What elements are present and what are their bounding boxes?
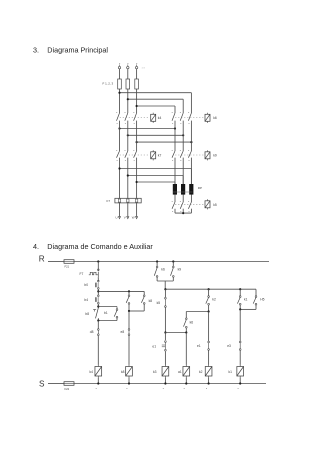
overload relay F7 element 1 [118,199,120,202]
svg-text:F21: F21 [65,264,70,268]
wire right column B row2 to resistor [182,162,184,184]
junction rail3 branch2 [128,290,130,292]
wire left column A to F7 [119,162,121,198]
junction branch1 S [97,382,99,384]
svg-text:k2: k2 [199,370,203,374]
junction parallel loop top [97,305,99,307]
junction branch3 S [164,382,166,384]
svg-text:k8: k8 [149,299,153,303]
svg-text:e1: e1 [152,344,156,348]
contactor K4 pole 3 [136,110,138,113]
wire right column B rows1-2 [182,125,184,148]
junction interconnect 2 left [127,134,129,136]
coil K7 (main) [151,152,156,159]
wire branch4 to coil a1 [185,333,187,365]
fuse F21 [64,260,74,264]
wire drop to rail2 [164,281,166,289]
svg-text:k5: k5 [157,301,161,305]
resistor RP phase2 [181,184,185,195]
contactor K9 actuator link [175,154,203,156]
svg-text:b1: b1 [104,311,108,315]
wire coil a1 to S [185,378,187,384]
contactor K6 pole 1 [174,110,176,113]
svg-text:e3: e3 [227,344,231,348]
contactor K4 actuator link [120,117,150,119]
junction branch5 S [208,382,210,384]
svg-text:U: U [115,216,117,220]
wire left column C rows1-2 [136,125,138,148]
supply terminal L2 [126,62,129,65]
wire resistor crossbar [173,191,192,193]
contactor K7 pole 1 [119,148,121,151]
wire coil k2 to S [208,378,210,384]
wire right column C row2 to resistor [190,162,192,184]
wire parallel loop top [98,306,117,308]
contact k8 (seal-in) [143,295,145,297]
wire resistor A to contactor K5 [174,195,176,200]
svg-text:k9: k9 [178,268,182,272]
wire left column B to F7 [127,162,129,198]
junction rail2 branch3 [164,288,166,290]
contact k9 (from R) [172,262,174,267]
svg-text:V: V [124,216,126,220]
svg-text:F7: F7 [80,272,84,276]
svg-text:k4: k4 [90,370,94,374]
junction interconnect 3 left [136,141,138,143]
wire interconnect phase3 [137,141,192,143]
contact e1 (branch5) [208,341,210,343]
contact d8 [97,329,99,331]
junction R to branch1 [97,260,99,262]
wire parallel loop bottom [116,318,118,321]
wire rail2 corner to H5 [255,289,257,296]
svg-text:b8: b8 [85,312,89,316]
wire interconnect phase1 [120,128,176,130]
svg-text:k6: k6 [161,268,165,272]
wire k6 k9 output bus [157,280,173,282]
bus wire phase 2 to right group [128,98,183,100]
wire motor lead U [119,203,121,217]
contact k5 [164,289,166,297]
contactor K6 pole 3 [190,110,192,113]
junction branch4 rail4 [185,331,187,333]
svg-text:RP: RP [198,186,202,190]
wire motor lead V [127,203,129,217]
svg-text:4.: 4. [33,242,39,251]
svg-text:1 3: 1 3 [142,68,146,70]
svg-text:F22: F22 [65,387,70,391]
svg-text:d8: d8 [90,330,94,334]
contactor K9 pole 3 [190,148,192,151]
supply terminal L1 [119,62,120,65]
svg-text:k3: k3 [153,370,157,374]
wire d8 to coil k4 [97,336,99,365]
junction phase3 bus [136,105,138,107]
junction branch6 merge [239,308,241,310]
wire coil k3 to S [164,378,166,384]
pushbutton b4 (NO) [97,295,99,297]
svg-text:k6: k6 [213,116,217,120]
svg-text:3.: 3. [33,45,39,54]
contactor K5 actuator link [175,203,203,205]
coil K9 (main) [205,152,210,159]
contactor K5 pole 3 [190,199,192,202]
junction tap1 [118,167,120,169]
coil K6 (main) [205,114,210,121]
svg-text:Diagrama de Comando e Auxiliar: Diagrama de Comando e Auxiliar [47,242,153,251]
wire branch6 to contact e3 [239,309,241,341]
contact H5 [255,296,257,298]
pushbutton b1 (parallel) [116,307,118,309]
pushbutton b0 (NC) [98,276,99,279]
fuse F1 [118,79,122,89]
svg-text:W: W [132,216,135,220]
wire e1 to coil k3 [164,351,166,365]
pin marks under S line [96,387,97,390]
junction rail2 branch6 [239,288,241,290]
tap wire 3 to resistor bank [137,181,175,183]
junction parallel loop bottom [97,319,99,321]
junction branch3 rail4 [164,331,166,333]
junction branch2 S [128,382,130,384]
junction interconnect 2 right [182,134,184,136]
svg-text:Diagrama Principal: Diagrama Principal [47,45,108,54]
junction rail2 branch5 [208,288,210,290]
contactor K9 pole 2 [182,148,184,151]
junction branch5 [208,310,210,312]
contact b5 [128,291,130,295]
wire right column A row2 to resistor [174,162,176,184]
svg-text:F 1, 2, 3: F 1, 2, 3 [103,81,114,85]
wire b5 bottom [128,304,130,311]
contactor K7 pole 2 [127,148,129,151]
wire interconnect phase2 [128,134,183,136]
contactor K4 pole 2 [127,110,129,113]
junction branch2 merge [128,310,130,312]
contactor K5 pole 1 [174,199,176,202]
junction tap3 [136,181,138,183]
thermal contact F7 (aux) [89,272,99,275]
contactor K6 pole 2 [182,110,184,113]
contactor K4 pole 1 [119,110,121,113]
junction interconnect 1 right [174,127,176,129]
wire left column A rows1-2 [119,125,121,148]
wire coil k4 to S [97,378,99,384]
contact k6 (from R) [156,262,158,267]
resistor RP phase1 [173,184,177,195]
svg-text:k5: k5 [213,203,217,207]
contact e8 [128,329,130,331]
wire H5 bottom to branch6 [255,305,257,309]
fuse F3 [135,79,139,89]
wire k6 aux to rail4 [185,328,187,333]
contactor K7 actuator link [120,154,150,156]
svg-text:H5: H5 [260,298,264,302]
svg-text:k4: k4 [158,116,162,120]
coil k1 [237,367,244,377]
svg-text:b4: b4 [84,298,88,302]
wire rail2 [165,288,256,290]
contactor K5 pole 2 [182,199,184,202]
wire fuse F1 to contactor row1 [119,89,121,110]
svg-text:k1: k1 [229,370,233,374]
wire rail4 [165,332,186,334]
svg-text:S: S [39,379,45,388]
wire right column C rows1-2 [190,125,192,148]
svg-text:F7: F7 [107,199,111,203]
wire rail branch1 to branch2 [98,290,144,292]
wire branch5 tap to branch4 [186,311,208,313]
junction branch1 rail3 [97,290,99,292]
wire star point bar [175,212,191,214]
junction branch6 S [239,382,241,384]
wire coil k8 to S [128,378,130,384]
svg-text:k8: k8 [121,370,125,374]
svg-text:R: R [39,255,45,264]
supply terminal L3 [136,62,137,65]
wire branch1 top [97,262,99,270]
bus wire phase 3 to right group [137,105,175,107]
wire branch2 to contact e8 [128,311,130,329]
svg-text:a1: a1 [178,370,182,374]
wire resistor B to contactor K5 [182,195,184,200]
coil a1 [183,367,190,377]
timer contact e1 (branch3) [164,333,166,341]
coil K5 (main) [205,201,210,208]
svg-text:e1: e1 [197,344,201,348]
contact e3 [239,341,241,343]
resistor RP phase3 [189,184,193,195]
fuse F22 [64,382,74,386]
bus wire phase 1 to right group [120,92,192,94]
junction star point [182,212,184,214]
overload relay F7 element 2 [127,199,129,202]
wire to coil k1 [239,350,241,365]
pushbutton b8 [96,308,99,318]
junction R to contact k9 [172,260,174,262]
wire b4 to junction b8 [97,304,99,308]
svg-text:k7: k7 [158,154,162,158]
wire b0 to junction [97,289,99,295]
svg-text:b0: b0 [84,283,88,287]
wire to contact d8 [97,321,99,329]
wire rail3 corner to k8 contact [143,291,145,295]
tap wire 2 to resistor bank [128,175,183,177]
coil k2 [205,367,212,377]
wire right column A rows1-2 [174,125,176,148]
contactor K9 pole 1 [174,148,176,151]
coil K4 (main) [151,114,156,121]
junction interconnect 1 left [118,127,120,129]
fuse F2 [126,79,130,89]
junction phase1 bus [118,92,120,94]
svg-text:k1: k1 [244,298,248,302]
overload relay F7 element 3 [135,199,137,202]
wire coil k1 to S [239,378,241,384]
wire e8 to coil k8 [128,336,130,365]
svg-text:k9: k9 [213,154,217,158]
contact k2 [208,289,210,296]
contact k1 [239,289,241,296]
wire branch5 to contact e1 [208,312,210,342]
contactor K6 actuator link [175,117,203,119]
junction phase2 bus [127,98,129,100]
overload relay F7 body [115,198,141,203]
wire to coil k2 [208,350,210,365]
coil k3 [162,367,169,377]
junction R to contact k6 [156,260,158,262]
wire left column B rows1-2 [127,125,129,148]
wire resistor C to contactor K5 [190,195,192,200]
wire k8 contact bottom [143,304,145,311]
svg-text:e8: e8 [121,330,125,334]
junction interconnect 3 right [190,141,192,143]
junction tap2 [127,174,129,176]
wire F7 to b0 [97,278,99,282]
coil k4 [95,367,102,377]
svg-text:k2: k2 [212,298,216,302]
wire fuse F3 to contactor row1 [136,89,138,110]
wire left column C to F7 [136,162,138,198]
junction branch4 S [185,382,187,384]
wire fuse F2 to contactor row1 [127,89,129,110]
coil k8 [126,367,133,377]
contactor K7 pole 3 [136,148,138,151]
svg-text:k6: k6 [190,320,194,324]
tap wire 1 to resistor bank [120,168,192,170]
wire motor lead W [136,203,138,217]
contact k6 (aux branch4) [185,318,187,320]
